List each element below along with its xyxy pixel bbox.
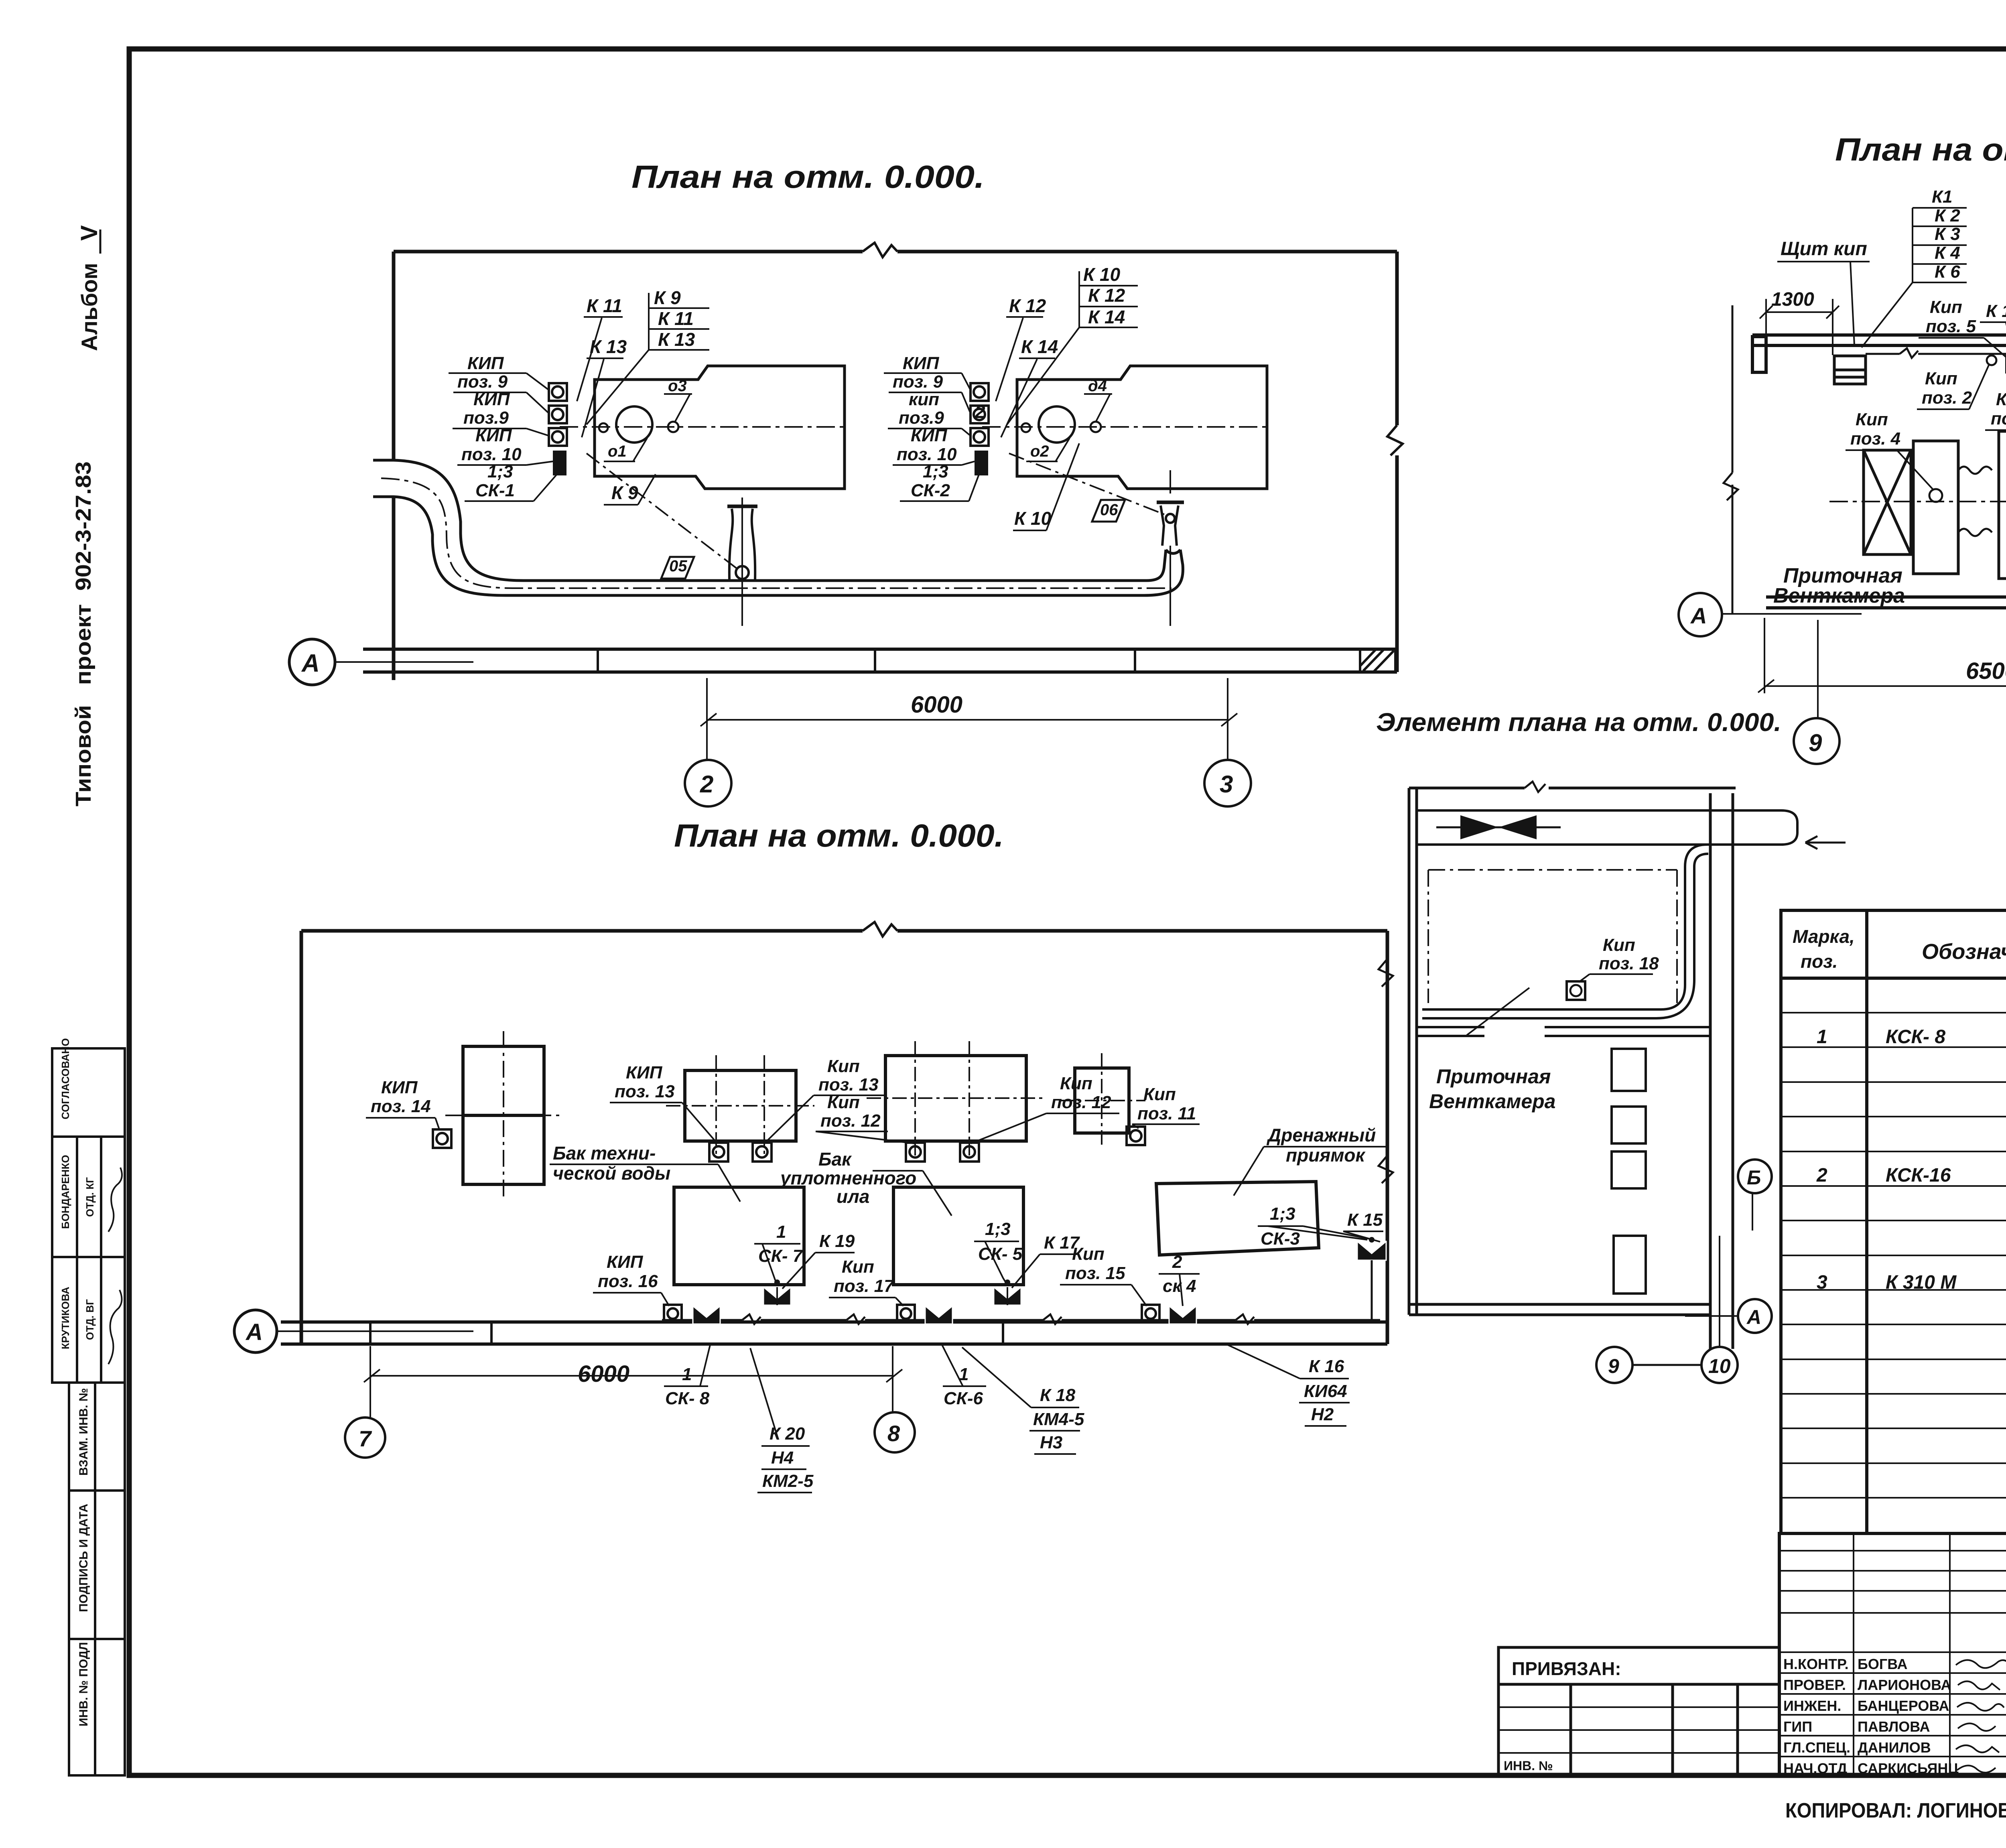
svg-text:поз. 16: поз. 16 (598, 1271, 658, 1291)
svg-text:А: А (1746, 1306, 1761, 1328)
svg-text:Обозначение: Обозначение (1922, 940, 2006, 964)
9 / 10 circles (element) (1596, 1347, 1632, 1383)
svg-text:КИП: КИП (626, 1063, 663, 1082)
axis A circle (plan1) (289, 639, 473, 685)
svg-text:К1: К1 (1932, 187, 1953, 207)
Дренажный приямок quad (1156, 1182, 1319, 1255)
svg-text:д4: д4 (1088, 377, 1107, 395)
svg-text:Кип: Кип (1930, 297, 1962, 317)
element plan walls (1409, 788, 1736, 1349)
svg-text:План на отм. 0.000.: План на отм. 0.000. (674, 818, 1004, 853)
svg-text:поз. 10: поз. 10 (461, 445, 522, 464)
svg-text:К 2: К 2 (1935, 206, 1960, 225)
svg-text:К 1: К 1 (1986, 301, 2006, 321)
svg-text:ОТД. ВГ: ОТД. ВГ (84, 1299, 96, 1340)
svg-text:План на отм. 0.000.: План на отм. 0.000. (631, 159, 985, 195)
svg-text:2: 2 (975, 401, 985, 422)
axis circle 7 (345, 1417, 385, 1458)
KIP junction boxes column 2 (971, 383, 989, 446)
machine1 centerline (560, 426, 845, 428)
upper-left revision grid (1779, 1533, 2006, 1775)
tank tall rect (left) (463, 1046, 544, 1184)
svg-text:К 12: К 12 (1088, 285, 1125, 306)
plan3 walls (301, 931, 1387, 1344)
signatures squiggles (1956, 1660, 2006, 1773)
svg-text:приямок: приямок (1286, 1145, 1366, 1166)
Бак технической воды rect (674, 1187, 804, 1285)
hydrant 2 (1157, 470, 1184, 626)
svg-text:Приточная: Приточная (1436, 1065, 1551, 1088)
svg-text:Щит кип: Щит кип (1781, 238, 1867, 260)
svg-text:7: 7 (359, 1426, 372, 1451)
svg-text:поз. 14: поз. 14 (371, 1097, 431, 1116)
svg-text:СК-6: СК-6 (944, 1389, 983, 1408)
svg-text:К 6: К 6 (1935, 262, 1960, 282)
svg-text:Кип: Кип (1072, 1244, 1105, 1264)
svg-text:А: А (245, 1319, 263, 1345)
plan1 top wall (394, 250, 1397, 254)
svg-text:Кип: Кип (842, 1257, 874, 1277)
svg-text:Кип: Кип (1603, 935, 1635, 955)
svg-text:поз. 9: поз. 9 (457, 372, 508, 392)
svg-text:поз. 11: поз. 11 (1137, 1104, 1196, 1123)
svg-text:2: 2 (700, 771, 713, 798)
svg-text:СК-1: СК-1 (475, 481, 515, 500)
axis circle 8 (875, 1412, 915, 1452)
svg-text:САРКИСЬЯНЦ: САРКИСЬЯНЦ (1858, 1760, 1959, 1777)
svg-text:06: 06 (1100, 501, 1118, 519)
fan bowtie (1460, 815, 1498, 839)
svg-text:поз.9: поз.9 (899, 408, 944, 428)
О5 / О6 diamond labels (661, 500, 1125, 579)
svg-text:поз.9: поз.9 (463, 408, 509, 428)
svg-text:2: 2 (1816, 1165, 1827, 1186)
small right square (1075, 1068, 1129, 1133)
Привязан table (1498, 1647, 1779, 1775)
svg-text:К 310 М: К 310 М (1886, 1272, 1957, 1293)
ladder rectangles (1612, 1049, 1646, 1294)
svg-text:Н4: Н4 (771, 1448, 794, 1468)
svg-text:о1: о1 (608, 443, 627, 460)
svg-text:поз. 12: поз. 12 (820, 1111, 881, 1131)
upper rect 2 (685, 1070, 796, 1141)
cable line along top wall with breaks (1866, 348, 2006, 358)
svg-text:ГИП: ГИП (1783, 1718, 1812, 1735)
svg-text:10: 10 (1708, 1355, 1731, 1377)
plan3 bottom wall dividers (370, 1322, 1003, 1344)
bottom wall cable with breaks (662, 1314, 1380, 1324)
axis A circle (plan2) (1679, 593, 1722, 636)
spring coupling (1958, 467, 1992, 536)
svg-text:БАНЦЕРОВА: БАНЦЕРОВА (1858, 1698, 1949, 1714)
cable conduit curve (1422, 845, 1708, 1018)
small circle devices (1987, 355, 1996, 365)
svg-text:ПРОВЕР.: ПРОВЕР. (1783, 1677, 1846, 1693)
svg-text:9: 9 (1608, 1355, 1619, 1377)
svg-text:6000: 6000 (578, 1361, 629, 1387)
svg-text:К 9: К 9 (654, 287, 681, 308)
svg-text:ВЗАМ. ИНВ. №: ВЗАМ. ИНВ. № (77, 1388, 90, 1476)
svg-text:1300: 1300 (1771, 289, 1814, 310)
svg-text:поз. 9: поз. 9 (893, 372, 943, 392)
pump unit O1 (machine 1) (595, 366, 845, 489)
Бак уплотненного ила rect (893, 1187, 1023, 1285)
Б axis circle (1738, 1160, 1772, 1193)
svg-text:Альбом: Альбом (77, 263, 102, 351)
left vertical title strip: signature box (52, 1048, 125, 1383)
svg-text:ИНВ. № ПОДЛ: ИНВ. № ПОДЛ (77, 1642, 90, 1726)
svg-text:К 19: К 19 (819, 1231, 855, 1251)
left vertical title strip: lower cells (69, 1383, 125, 1775)
svg-text:Б: Б (1747, 1166, 1761, 1189)
pipe centerline (381, 478, 1172, 588)
svg-text:К 11: К 11 (658, 308, 694, 329)
K1..K6 label stack (1932, 187, 1960, 282)
svg-text:поз. 17: поз. 17 (834, 1276, 895, 1296)
svg-text:К 11: К 11 (587, 295, 622, 316)
svg-text:КИП: КИП (381, 1078, 418, 1097)
upper labels machine2: К12, К10/К12/К14 stack, К14, К10 (975, 264, 1125, 529)
plan1 bottom wall double line (363, 642, 1397, 679)
svg-text:ила: ила (837, 1186, 869, 1207)
svg-text:Кип: Кип (827, 1056, 860, 1076)
svg-text:поз. 1: поз. 1 (1991, 409, 2006, 428)
svg-text:1;3: 1;3 (1270, 1204, 1295, 1224)
svg-text:Дренажный: Дренажный (1266, 1125, 1376, 1145)
svg-text:V: V (76, 225, 102, 241)
svg-text:К 16: К 16 (1309, 1357, 1344, 1376)
plan1 hatched wall block (1360, 649, 1395, 672)
svg-text:Венткамера: Венткамера (1429, 1090, 1555, 1113)
svg-text:1: 1 (776, 1222, 786, 1242)
svg-text:поз. 13: поз. 13 (615, 1082, 675, 1101)
svg-text:Бак техни-: Бак техни- (553, 1143, 656, 1164)
svg-text:КМ4-5: КМ4-5 (1033, 1409, 1084, 1429)
svg-text:8: 8 (887, 1421, 900, 1446)
svg-text:6500: 6500 (1966, 658, 2006, 684)
svg-text:Н2: Н2 (1311, 1405, 1334, 1424)
svg-text:поз.: поз. (1801, 951, 1837, 972)
svg-text:Венткамера: Венткамера (1773, 584, 1905, 607)
svg-text:2: 2 (1172, 1252, 1182, 1272)
svg-text:1: 1 (1817, 1026, 1827, 1048)
svg-text:1: 1 (682, 1365, 692, 1384)
svg-text:К 13: К 13 (658, 329, 695, 350)
svg-text:Кип: Кип (1143, 1084, 1176, 1104)
axis circle 9 (plan2) (1794, 718, 1840, 764)
svg-text:6000: 6000 (911, 692, 962, 718)
svg-text:К 12: К 12 (1009, 295, 1046, 316)
svg-text:поз. 18: поз. 18 (1599, 954, 1659, 973)
ventilation unit machines (1864, 345, 2006, 579)
duct with fan (1417, 810, 1846, 849)
plan2 left wall break (1724, 473, 1738, 500)
svg-text:А: А (1690, 603, 1707, 628)
leader to chamber (1467, 988, 1529, 1035)
svg-text:К 9: К 9 (611, 482, 638, 503)
svg-text:К 3: К 3 (1935, 224, 1960, 244)
hydrant 1 (727, 498, 757, 626)
svg-text:НАЧ.ОТД: НАЧ.ОТД (1783, 1760, 1847, 1777)
svg-text:1;3: 1;3 (985, 1219, 1011, 1239)
svg-text:Кип: Кип (1996, 390, 2006, 409)
svg-text:Н3: Н3 (1040, 1433, 1062, 1452)
svg-text:ПОДПИСЬ И ДАТА: ПОДПИСЬ И ДАТА (77, 1504, 90, 1612)
svg-text:ИНЖЕН.: ИНЖЕН. (1783, 1698, 1841, 1714)
svg-text:о2: о2 (1030, 443, 1049, 460)
svg-text:К 18: К 18 (1040, 1385, 1076, 1405)
pump unit O2 (machine 2) (1017, 366, 1267, 489)
plan1 right wall break (1387, 425, 1403, 455)
plan1 bottom wall dividers (598, 649, 1135, 672)
plan1 dimension 6000 (700, 678, 1237, 760)
left margin vertical text: Альбом V (76, 225, 102, 351)
svg-text:05: 05 (669, 557, 687, 575)
svg-text:ГЛ.СПЕЦ.: ГЛ.СПЕЦ. (1783, 1739, 1850, 1756)
svg-text:К 14: К 14 (1021, 336, 1058, 357)
svg-text:3: 3 (1220, 771, 1233, 798)
upper rect 3 (885, 1056, 1026, 1141)
main pipe with bends (373, 460, 1183, 595)
svg-text:ОТД. КГ: ОТД. КГ (84, 1177, 96, 1217)
KIP + envelope symbols along bottom wall (664, 1305, 1159, 1322)
svg-text:поз. 15: поз. 15 (1065, 1263, 1125, 1283)
svg-text:КОПИРОВАЛ: ЛОГИНОВА: КОПИРОВАЛ: ЛОГИНОВА (1785, 1799, 2006, 1822)
svg-text:Типовой проект 902-3-27.83: Типовой проект 902-3-27.83 (71, 461, 95, 806)
svg-text:КИП: КИП (467, 353, 504, 373)
upper labels machine1: К11, К9/К11/К13 stack, К13 (587, 287, 695, 503)
svg-text:СК- 7: СК- 7 (758, 1246, 804, 1266)
machine2 centerline (982, 426, 1267, 428)
KIP box поз.18 (1567, 981, 1585, 1000)
О3 / Д4 flange labels (608, 377, 1107, 460)
svg-text:КСК- 8: КСК- 8 (1886, 1026, 1945, 1048)
svg-text:ПАВЛОВА: ПАВЛОВА (1858, 1718, 1930, 1735)
plan2 walls (1732, 305, 2006, 614)
svg-text:Кип: Кип (1060, 1074, 1092, 1093)
plan1 left wall (392, 252, 396, 680)
svg-text:БОНДАРЕНКО: БОНДАРЕНКО (59, 1155, 71, 1229)
svg-text:СК- 5: СК- 5 (978, 1244, 1023, 1264)
top wall break (1525, 782, 1545, 792)
svg-text:КСК-16: КСК-16 (1886, 1165, 1951, 1186)
svg-text:КИ64: КИ64 (1304, 1381, 1347, 1401)
svg-text:Бак: Бак (818, 1149, 852, 1170)
svg-text:о3: о3 (668, 377, 687, 395)
svg-text:КИП: КИП (903, 353, 940, 373)
svg-text:КМ2-5: КМ2-5 (762, 1471, 814, 1491)
pump circle O1 (616, 406, 652, 443)
svg-text:А: А (301, 650, 320, 677)
unit centerline (1829, 501, 2006, 502)
plan2 leader labels (1850, 232, 2006, 612)
axis circle 3 (1204, 760, 1251, 806)
svg-text:поз. 10: поз. 10 (897, 445, 957, 464)
svg-text:БОГВА: БОГВА (1858, 1656, 1908, 1672)
svg-text:К 15: К 15 (1347, 1210, 1383, 1230)
svg-text:Элемент плана на отм. 0.000.: Элемент плана на отм. 0.000. (1376, 708, 1781, 737)
KIP junction boxes column 1 (549, 383, 567, 446)
plan3 bottom wall double (281, 1322, 1387, 1344)
svg-text:К 10: К 10 (1014, 508, 1052, 529)
KIP square symbols top row (433, 1127, 1145, 1148)
svg-text:План на отм. 0.000.: План на отм. 0.000. (1835, 132, 2006, 167)
plan2 dimension 6500 (1758, 618, 2006, 725)
svg-text:КИП: КИП (607, 1252, 644, 1272)
svg-text:ЛАРИОНОВА: ЛАРИОНОВА (1858, 1677, 1951, 1693)
lower inner walls (1417, 1027, 1710, 1036)
Щит КИП panel (1834, 356, 1866, 384)
svg-text:поз. 2: поз. 2 (1922, 388, 1972, 408)
svg-text:Кип: Кип (1925, 369, 1957, 388)
svg-text:поз. 4: поз. 4 (1850, 429, 1900, 449)
plan1 right wall (1395, 252, 1399, 672)
axis circle 2 (685, 760, 731, 806)
svg-text:3: 3 (1817, 1272, 1827, 1293)
svg-text:ческой воды: ческой воды (553, 1163, 670, 1184)
svg-text:ПРИВЯЗАН:: ПРИВЯЗАН: (1512, 1658, 1621, 1679)
plan1 wall break (top) (863, 243, 897, 257)
sensor circles on units (1929, 489, 1942, 502)
svg-text:СК-2: СК-2 (911, 481, 950, 500)
axis A circle (plan3) (234, 1310, 277, 1352)
svg-text:ДАНИЛОВ: ДАНИЛОВ (1858, 1739, 1931, 1756)
svg-text:поз. 13: поз. 13 (818, 1075, 879, 1095)
dash-dot leaders machine to hydrant (587, 453, 737, 569)
А axis circle (element) (1738, 1299, 1772, 1333)
svg-text:поз. 12: поз. 12 (1051, 1093, 1111, 1112)
pump circle O2 (1039, 406, 1075, 443)
plan3 dimension 6000 (364, 1346, 902, 1417)
svg-text:К 10: К 10 (1083, 264, 1121, 285)
svg-text:Марка,: Марка, (1793, 926, 1855, 947)
svg-text:КРУТИКОВА: КРУТИКОВА (59, 1287, 71, 1349)
svg-text:поз. 5: поз. 5 (1926, 317, 1976, 336)
labels col2 (893, 353, 957, 500)
svg-text:К 14: К 14 (1088, 307, 1125, 327)
svg-text:9: 9 (1809, 729, 1822, 756)
svg-text:Н.КОНТР.: Н.КОНТР. (1783, 1656, 1849, 1672)
svg-text:СК- 8: СК- 8 (665, 1389, 710, 1408)
labels col1: КИП поз.9 / КИП поз.9 / КИП поз.10 / 1:3 СК-1 (457, 353, 522, 500)
signature rows (1779, 1652, 2006, 1757)
svg-text:Кип: Кип (1856, 410, 1888, 429)
svg-text:СОГЛАСОВАНО: СОГЛАСОВАНО (59, 1038, 71, 1119)
svg-text:СК-3: СК-3 (1261, 1229, 1300, 1249)
svg-text:К 4: К 4 (1935, 243, 1960, 263)
svg-text:ИНВ. №: ИНВ. № (1504, 1759, 1553, 1773)
dash-dot cable route rectangle (1428, 870, 1677, 1003)
